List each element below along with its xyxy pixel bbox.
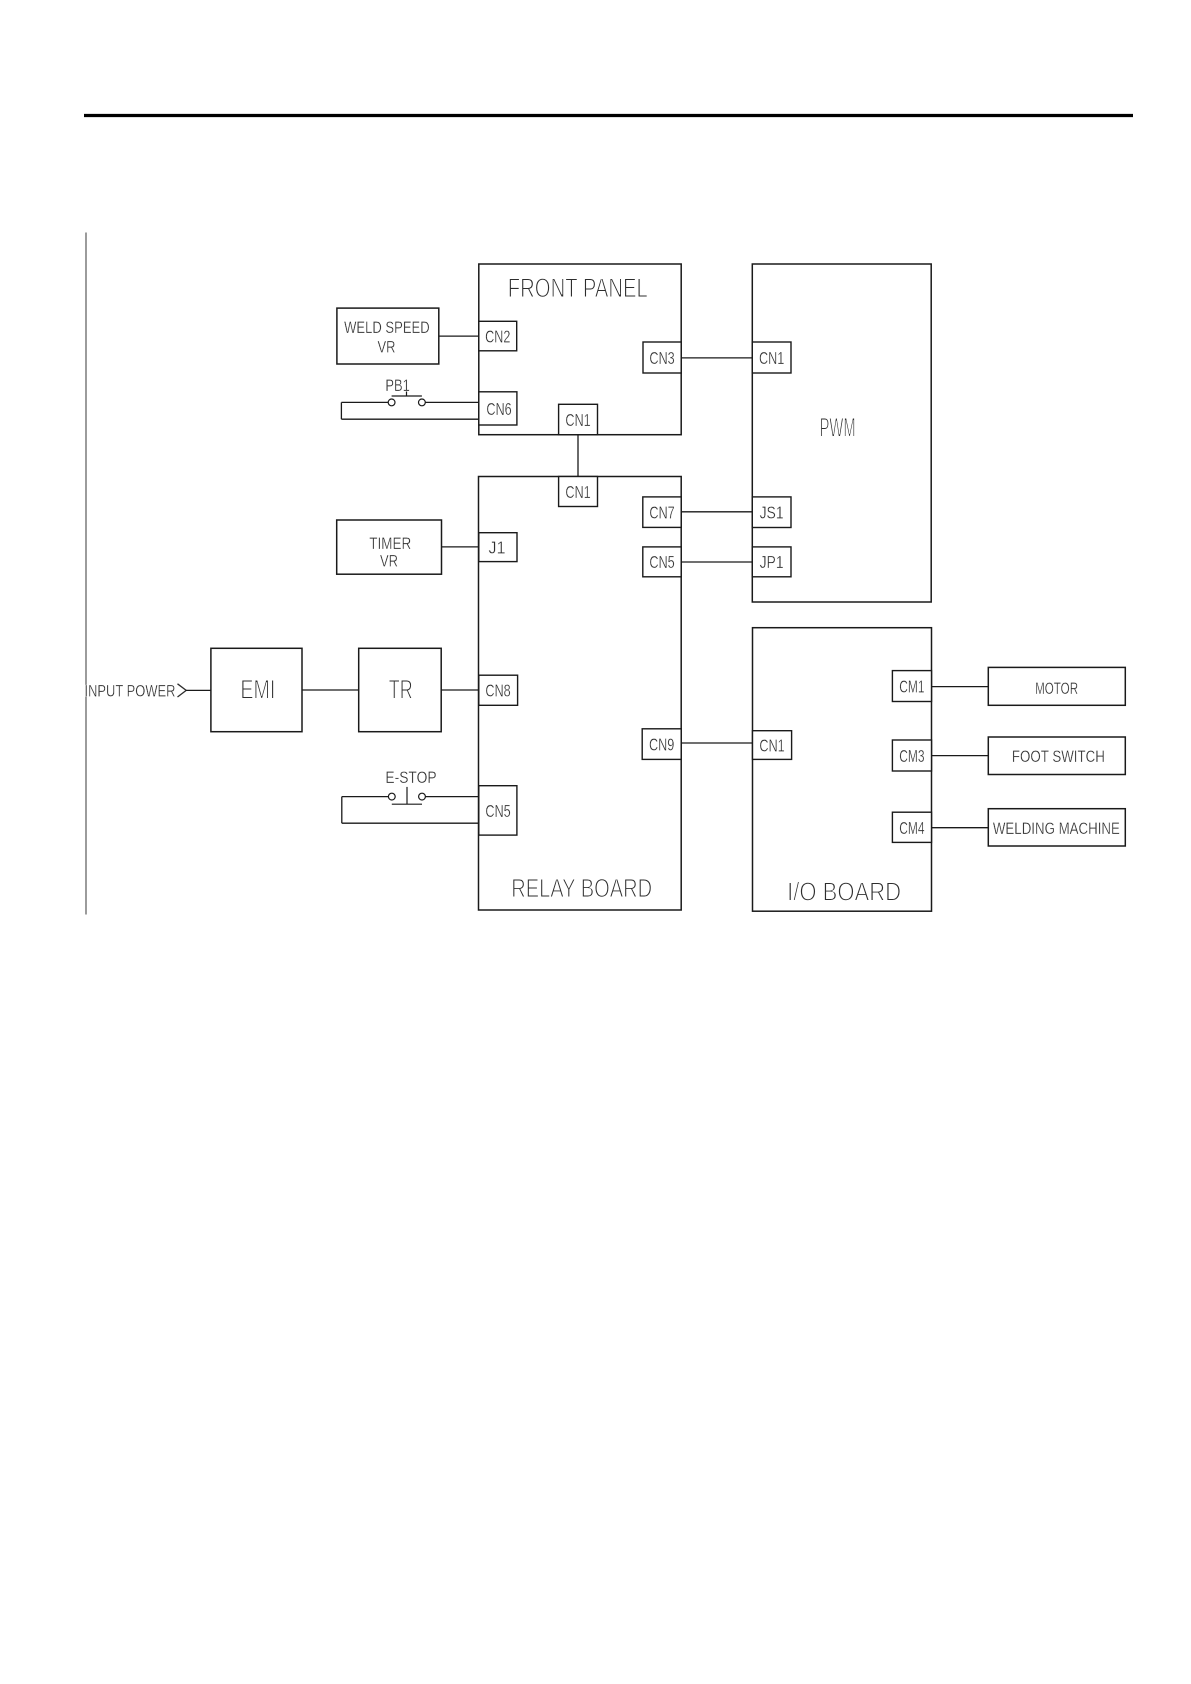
connector CN9 <box>642 729 681 760</box>
svg-text:VR: VR <box>380 553 398 571</box>
wire CM4 to WELDING MACHINE <box>932 827 989 829</box>
svg-text:FOOT SWITCH: FOOT SWITCH <box>1012 748 1105 766</box>
header rule <box>84 114 1133 117</box>
svg-text:CM3: CM3 <box>899 746 924 766</box>
svg-text:CN1: CN1 <box>759 348 784 368</box>
svg-text:CN2: CN2 <box>485 326 510 346</box>
svg-text:TIMER: TIMER <box>369 535 411 553</box>
svg-text:VR: VR <box>378 338 396 356</box>
wire PB1 upper right to CN6 <box>425 401 479 403</box>
connector CM1 <box>892 671 931 702</box>
connector CN1 on RELAY BOARD top <box>559 477 598 507</box>
switch E-STOP contact circle left <box>388 793 395 800</box>
block TR <box>359 648 442 731</box>
wire CM1 to MOTOR <box>932 686 989 688</box>
svg-text:CN9: CN9 <box>649 735 674 755</box>
connector CN1 on FRONT PANEL bottom <box>559 404 598 434</box>
left page border line <box>85 233 87 915</box>
svg-text:WELDING MACHINE: WELDING MACHINE <box>993 820 1120 838</box>
connector CN6 <box>479 392 517 425</box>
connector J1 <box>479 533 517 562</box>
wire EMI to TR <box>302 689 359 691</box>
connector CM3 <box>892 740 931 771</box>
svg-text:CN3: CN3 <box>649 348 674 368</box>
svg-text:WELD SPEED: WELD SPEED <box>344 319 430 337</box>
block TIMER VR <box>337 520 442 574</box>
block MOTOR <box>988 667 1125 705</box>
connector CN3 <box>643 342 681 373</box>
pushbutton PB1 bar <box>392 395 422 397</box>
wire PB1 upper left <box>341 401 388 403</box>
svg-text:CN5: CN5 <box>485 801 510 821</box>
wire E-STOP upper right to CN5 <box>425 796 478 798</box>
block WELDING MACHINE <box>988 809 1125 846</box>
switch E-STOP actuator tick <box>406 787 408 804</box>
svg-text:JP1: JP1 <box>760 552 784 572</box>
wire FRONT PANEL CN1 to RELAY BOARD CN1 <box>577 435 579 477</box>
connector CN5 on RELAY BOARD left <box>479 786 517 835</box>
block PWM <box>752 264 931 602</box>
svg-text:CN1: CN1 <box>565 410 590 430</box>
connector CN5 on RELAY BOARD right <box>643 547 681 577</box>
block WELD SPEED VR <box>337 308 439 364</box>
wire E-STOP lower to CN5 <box>342 822 479 824</box>
svg-text:CN5: CN5 <box>649 552 674 572</box>
connector CN1 on I/O BOARD <box>753 731 792 760</box>
wire CM3 to FOOT SWITCH <box>932 755 989 757</box>
switch E-STOP bar <box>392 803 422 805</box>
wire PB1 lower to CN6 <box>341 418 478 420</box>
wire CN9 to I/O CN1 <box>681 742 752 744</box>
svg-text:CN7: CN7 <box>649 503 674 523</box>
svg-text:CM1: CM1 <box>899 676 924 696</box>
pushbutton PB1 contact circle right <box>419 399 426 406</box>
svg-text:MOTOR: MOTOR <box>1035 680 1078 698</box>
node INPUT POWER arrow <box>178 684 187 697</box>
svg-text:CN8: CN8 <box>485 681 510 701</box>
svg-text:INPUT POWER: INPUT POWER <box>85 683 176 701</box>
block I/O BOARD <box>753 628 932 912</box>
wire TIMER VR to J1 <box>442 546 479 548</box>
svg-text:E-STOP: E-STOP <box>385 769 436 787</box>
wire CN5 to JP1 <box>681 561 752 563</box>
wire INPUT POWER to EMI <box>186 689 211 691</box>
svg-text:TR: TR <box>389 675 413 705</box>
pushbutton PB1 contact circle left <box>388 399 395 406</box>
connector CN8 <box>479 675 518 705</box>
connector CM4 <box>892 812 931 842</box>
svg-text:JS1: JS1 <box>760 503 784 523</box>
svg-text:FRONT PANEL: FRONT PANEL <box>508 273 648 303</box>
wire TR to CN8 <box>441 689 479 691</box>
connector CN2 <box>479 321 517 351</box>
block FRONT PANEL <box>479 264 681 435</box>
svg-text:CN1: CN1 <box>759 735 784 755</box>
svg-text:PWM: PWM <box>820 413 856 443</box>
connector JP1 <box>752 547 791 577</box>
wire CN3 to PWM CN1 <box>681 357 752 359</box>
svg-text:CN6: CN6 <box>486 399 511 419</box>
svg-text:CM4: CM4 <box>899 818 924 838</box>
pushbutton PB1 actuator tick <box>406 392 408 397</box>
block FOOT SWITCH <box>988 737 1125 775</box>
connector CN1 on PWM <box>752 342 791 373</box>
wire E-STOP left vertical <box>341 797 343 824</box>
svg-text:J1: J1 <box>489 538 506 558</box>
wire PB1 left vertical <box>340 402 342 419</box>
wire E-STOP upper left <box>342 796 389 798</box>
wire CN7 to JS1 <box>681 511 752 513</box>
wire WELD SPEED VR to CN2 <box>439 335 479 337</box>
svg-text:I/O BOARD: I/O BOARD <box>787 877 901 907</box>
svg-text:CN1: CN1 <box>565 482 590 502</box>
switch E-STOP contact circle right <box>419 793 426 800</box>
connector JS1 <box>752 497 791 528</box>
connector CN7 <box>643 497 681 528</box>
block RELAY BOARD <box>479 477 682 911</box>
svg-text:RELAY BOARD: RELAY BOARD <box>511 873 652 903</box>
svg-text:EMI: EMI <box>240 675 275 705</box>
block EMI <box>211 648 302 731</box>
